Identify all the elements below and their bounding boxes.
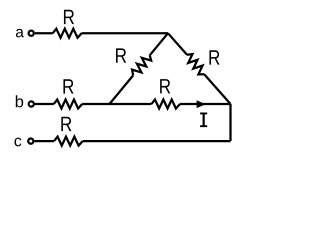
wire top vertex to R3 bbox=[168, 33, 187, 55]
wire R6 along bottom to right corner bbox=[83, 140, 231, 142]
label I (current through R5) bbox=[200, 113, 207, 128]
resistor R5 (middle branch) bbox=[152, 100, 181, 109]
terminal b open circle bbox=[29, 101, 34, 106]
terminal c open circle bbox=[28, 139, 33, 144]
value label R of R4 bbox=[63, 79, 73, 93]
resistor R1 (series with terminal a) bbox=[53, 29, 82, 38]
label b bbox=[16, 95, 23, 107]
terminal a open circle bbox=[29, 31, 34, 36]
wire a terminal to R1 bbox=[35, 32, 53, 34]
wire R2 to junction on b branch bbox=[110, 75, 134, 104]
wire c terminal to R6 bbox=[35, 140, 55, 142]
value label R of R2 bbox=[116, 48, 126, 62]
resistor R2 (left diagonal) bbox=[132, 55, 151, 75]
wire R4 past junction to R5 bbox=[82, 103, 151, 105]
wire R3 to right node bbox=[204, 74, 230, 104]
current arrow head for I bbox=[197, 100, 206, 108]
value label R of R5 bbox=[160, 79, 170, 93]
label a bbox=[16, 29, 24, 37]
resistor R3 (right diagonal) bbox=[187, 54, 204, 74]
wire R5 to right node (carries current I) bbox=[180, 103, 231, 105]
label c bbox=[14, 138, 21, 147]
value label R of R1 bbox=[64, 10, 74, 24]
wire b terminal to R4 bbox=[35, 103, 54, 105]
value label R of R6 bbox=[61, 117, 71, 131]
wire R1 to top vertex node bbox=[82, 32, 168, 34]
wire top vertex to R2 bbox=[150, 33, 168, 55]
resistor R4 (series with terminal b) bbox=[54, 100, 82, 109]
wire right vertical from bottom corner up to right node bbox=[229, 104, 231, 141]
resistor R6 (series with terminal c) bbox=[54, 137, 83, 146]
value label R of R3 bbox=[209, 50, 219, 64]
